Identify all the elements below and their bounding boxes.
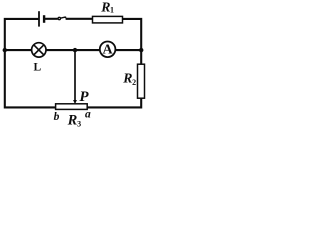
wire: battery to switch: [44, 18, 58, 20]
svg-text:L: L: [34, 62, 42, 74]
wire: top-left, left side, bottom-left to rheostat: [5, 19, 56, 108]
svg-text:P: P: [79, 89, 89, 105]
node: slider junction: [73, 48, 77, 52]
node: right junction: [139, 48, 143, 52]
node: left junction: [3, 48, 7, 52]
wire: R2 bottom to bottom-right corner to rheostat: [87, 98, 141, 107]
resistor R2: [138, 64, 145, 98]
ammeter A1: [100, 42, 116, 58]
svg-text:A: A: [103, 43, 114, 58]
resistor R1: [93, 16, 123, 23]
wire: R1 to top-right corner down to R2: [123, 19, 142, 65]
wire: lamp to ammeter: [46, 49, 100, 51]
wire: slider drop: [74, 50, 76, 101]
wire: middle row left: [5, 49, 32, 51]
battery B1: [39, 11, 44, 26]
svg-text:a: a: [85, 108, 91, 120]
arrowhead P slider: [73, 100, 77, 104]
svg-text:b: b: [54, 111, 60, 123]
wire: switch to R1: [66, 18, 93, 20]
lamp L: [32, 43, 46, 57]
long plate: [38, 11, 40, 26]
switch S: [58, 16, 66, 19]
short plate: [43, 15, 45, 23]
rheostat R3: [56, 104, 88, 110]
wire: ammeter to right side: [115, 49, 141, 51]
